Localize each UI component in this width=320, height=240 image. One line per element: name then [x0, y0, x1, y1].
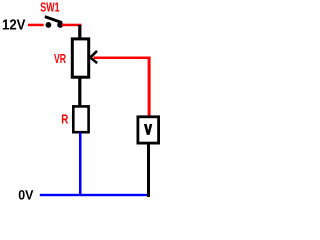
wire right rail vertical down to voltmeter (red) [148, 57, 151, 116]
resistor R body [73, 106, 88, 132]
potentiometer VR wiper arrow upper barb [90, 51, 97, 58]
svg-text:VR: VR [54, 51, 66, 66]
switch SW1 left contact dot [46, 22, 52, 28]
switch SW1 right contact dot [57, 22, 63, 28]
wire 12V to switch SW1 (red) [28, 24, 44, 27]
wire switch to potentiometer top (red) [62, 24, 82, 27]
wire wiper to right rail (red) [94, 57, 151, 60]
potentiometer VR wiper arrow lower barb [90, 57, 97, 63]
voltmeter U1 body [138, 117, 159, 143]
wire 0V rail (blue) [40, 194, 147, 196]
voltmeter V letter [144, 124, 152, 135]
resistor bottom lead (blue) [79, 133, 82, 196]
svg-text:12V: 12V [2, 18, 26, 34]
potentiometer VR body [72, 39, 88, 77]
switch SW1 lever [45, 17, 62, 23]
svg-text:0V: 0V [18, 188, 33, 203]
potentiometer VR top lead (black) [78, 25, 81, 39]
svg-text:SW1: SW1 [40, 0, 59, 15]
svg-text:R: R [61, 111, 68, 126]
voltmeter bottom lead (black) [147, 144, 150, 197]
wire potentiometer to resistor (black) [78, 78, 81, 106]
